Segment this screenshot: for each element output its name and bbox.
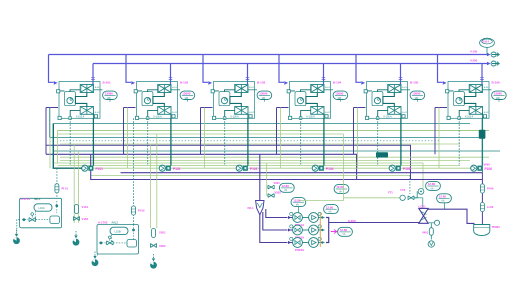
- wire: fuel gas line (green): [60, 156, 489, 158]
- wire: drain column C (green pair): [151, 134, 157, 228]
- instrument: right capsule 1: [480, 184, 484, 193]
- instrument: header flow readout: [480, 38, 495, 47]
- svg-text:B-102: B-102: [180, 81, 189, 85]
- svg-text:PI 02: PI 02: [138, 209, 145, 213]
- compressor unit 2 (coolers E-01/E-02, pump K-102): [134, 82, 195, 120]
- drain: skid2: [97, 254, 99, 256]
- wire: utility line 2 (green): [60, 160, 470, 162]
- wire: pump discharge collector (purple): [326, 218, 329, 243]
- package: chemical injection skid 1: [20, 198, 62, 228]
- svg-text:P101: P101: [96, 167, 104, 171]
- wire: condensate transfer line (purple): [91, 154, 483, 179]
- vessel: flash funnel FD-1: [259, 154, 261, 200]
- wire: left green stub: [57, 131, 59, 164]
- node: gas export A: [487, 53, 491, 56]
- instrument: skid2 feed capsule: [132, 206, 136, 215]
- svg-text:V301: V301: [274, 181, 281, 185]
- wire: unit 5 outlet riser to suction header: [400, 64, 402, 85]
- svg-text:/ML1: /ML1: [34, 197, 41, 201]
- svg-text:LCV1: LCV1: [419, 205, 427, 209]
- wire: header drop to unit 1 inlet: [49, 55, 54, 83]
- wire: unit 2 cooler outlet (thick teal): [170, 118, 172, 165]
- pump pair row 1 (booster P-301 A/B): [288, 212, 325, 222]
- svg-text:V101: V101: [82, 205, 89, 209]
- compressor unit 3 (coolers E-01/E-02, pump K-103): [211, 82, 272, 120]
- svg-text:P103: P103: [250, 167, 258, 171]
- wire: unit 2 outlet riser to suction header: [170, 64, 172, 85]
- wire: green meter run: [344, 197, 400, 199]
- wire: unit 6 cooler outlet (thick teal): [481, 118, 483, 165]
- svg-text:PI 01: PI 01: [62, 187, 69, 191]
- wire: LCV drain stem: [430, 223, 432, 239]
- svg-text:P303A: P303A: [295, 248, 305, 252]
- wire: unit 5 green utility drop: [357, 108, 359, 169]
- wire: stub to PSVs (green): [267, 163, 268, 196]
- wire: suction header: [93, 63, 490, 65]
- svg-text:TK600: TK600: [492, 225, 501, 229]
- wire: unit 6 condensate drop (purple): [435, 108, 447, 155]
- wire: unit 3 outlet riser to suction header: [247, 64, 249, 85]
- compressor unit 1 (coolers E-01/E-02, pump K-101): [57, 82, 118, 120]
- svg-text:V202: V202: [159, 244, 166, 248]
- svg-text:P104: P104: [326, 167, 334, 171]
- package: chemical injection skid 2: [97, 225, 139, 255]
- wire: seal oil run line (green): [53, 167, 480, 169]
- svg-text:A-1701: A-1701: [21, 197, 31, 201]
- wire: unit 2 condensate drop (purple): [124, 108, 136, 155]
- svg-text:P105: P105: [403, 167, 411, 171]
- wire: unit 1 pump suction (dashed teal): [69, 118, 71, 164]
- instrument: flow ellipse FE-1: [279, 183, 294, 192]
- svg-text:B-106: B-106: [492, 81, 501, 85]
- wire: left teal stub: [49, 108, 51, 138]
- pump: unit 4 seal-oil run pump: [312, 165, 324, 171]
- svg-text:B-101: B-101: [103, 81, 112, 85]
- wire: utility line 3 (green): [58, 165, 461, 167]
- svg-text:V102: V102: [82, 217, 89, 221]
- wire: unit 4 condensate drop (purple): [277, 108, 289, 155]
- wire: unit 3 cooler outlet (thick teal): [247, 118, 249, 165]
- pump: unit 1 seal-oil run pump: [82, 165, 94, 171]
- instrument: drain capsule under LCV: [429, 228, 433, 236]
- wire: dashed stub above meters: [409, 175, 411, 194]
- drain: skid1: [17, 220, 20, 232]
- svg-text:B-104: B-104: [333, 81, 342, 85]
- pump: unit 6 seal-oil run pump: [471, 165, 483, 171]
- wire: funnel outlet to pump rows (purple): [260, 215, 288, 243]
- instrument: flow ellipse FE-2 (top right): [334, 184, 349, 193]
- pump: unit 5 seal-oil run pump: [389, 165, 401, 171]
- svg-text:4-200: 4-200: [470, 59, 478, 63]
- svg-text:PI-60: PI-60: [487, 187, 494, 191]
- pump pair row 2 (booster P-302 A/B): [288, 225, 325, 235]
- wire: utility line (green): [60, 143, 460, 145]
- valve: meter block bowtie: [408, 196, 414, 200]
- valve: level control valve LCV-1 (vertical): [419, 208, 428, 223]
- instrument: totalizer ellipse B: [437, 194, 452, 203]
- drain: column A to sewer: [73, 231, 80, 246]
- valve: PSV-2: [268, 194, 274, 198]
- wire: unit 3 pump suction (dashed teal): [224, 118, 226, 164]
- instrument: flow meter circle: [400, 195, 405, 200]
- compressor unit 4 (coolers E-01/E-02, pump K-104): [287, 82, 348, 120]
- wire: unit 3 green utility drop: [204, 108, 206, 169]
- wire: skid2 feed (dashed teal): [133, 118, 135, 224]
- wire: unit 2 green utility drop: [127, 108, 129, 169]
- wire: green loop to right section: [300, 134, 344, 201]
- wire: condensate header lower (purple): [121, 172, 483, 174]
- svg-text:L10A: L10A: [39, 206, 45, 210]
- wire: discharge header: [49, 54, 490, 56]
- svg-text:P102: P102: [173, 167, 181, 171]
- wire: unit 2 pump suction (dashed teal): [147, 118, 149, 164]
- drain: column C to sewer: [150, 254, 157, 269]
- wire: unit 5 cooler outlet (thick teal): [400, 118, 402, 165]
- svg-text:L10B: L10B: [115, 229, 121, 233]
- wire: condensate header mid (purple): [46, 154, 357, 179]
- vessel: condensate tank TK-600: [474, 225, 490, 236]
- wire: unit 4 pump suction (dashed teal): [300, 118, 302, 164]
- wire: unit 1 green utility drop: [49, 108, 51, 169]
- svg-text:FD-1: FD-1: [248, 206, 255, 210]
- compressor unit 5 (coolers E-01/E-02, pump K-105): [364, 82, 425, 120]
- svg-text:V401: V401: [422, 230, 429, 234]
- wire: header drop to unit 4 inlet: [279, 55, 284, 83]
- pump pair row 3 (booster P-303 A/B): [288, 237, 325, 247]
- svg-text:6-300: 6-300: [348, 219, 356, 223]
- wire: meter to pilot circle: [414, 191, 417, 197]
- svg-text:4-100: 4-100: [470, 50, 478, 54]
- svg-text:8.914: 8.914: [482, 40, 489, 44]
- wire: unit 6 outlet riser to suction header: [481, 64, 483, 85]
- compressor unit 6 (coolers E-01/E-02, pump K-106): [446, 82, 507, 120]
- instrument: ellipse PI-9 right of row1: [324, 205, 339, 214]
- wire: unit 1 outlet riser to suction header: [92, 64, 94, 85]
- node: gas export B: [487, 62, 491, 65]
- instrument: right capsule 2: [480, 202, 484, 211]
- svg-text:A-1702: A-1702: [98, 221, 108, 225]
- heater: inline element on utility line: [376, 152, 388, 157]
- wire: pump discharge manifold (orange): [319, 213, 321, 248]
- svg-text:B-103: B-103: [257, 81, 266, 85]
- svg-text:P106: P106: [485, 167, 493, 171]
- wire: condensate header upper (purple): [46, 145, 411, 179]
- wire: unit 1 condensate drop (purple): [46, 108, 58, 155]
- wire: instrument line (dashed teal): [60, 140, 440, 142]
- wire: header drop to unit 3 inlet: [203, 55, 208, 83]
- wire: cooling water return (teal): [50, 137, 479, 139]
- wire: tank feed column (purple): [481, 173, 483, 225]
- wire: header drop to unit 2 inlet: [126, 55, 131, 83]
- wire: LCV outlet to tank (purple): [428, 209, 475, 223]
- wire: unit 4 green utility drop: [280, 108, 282, 169]
- wire: unit 6 green utility drop: [438, 108, 440, 169]
- wire: cooling water supply (teal): [53, 123, 470, 125]
- wire: utility line 4 (green): [91, 175, 410, 177]
- svg-text:B-105: B-105: [410, 81, 419, 85]
- instrument: small circle right of LCV: [434, 220, 439, 225]
- valve: column C capsule: [152, 229, 156, 238]
- wire: discharge to LCV (purple): [329, 222, 420, 224]
- wire: glycol return (green): [58, 130, 490, 132]
- wire: glycol supply (green): [58, 133, 344, 135]
- wire: seal oil feeder (thick teal): [53, 124, 82, 169]
- svg-text:LI-60: LI-60: [487, 205, 494, 209]
- wire: header drop to unit 6 inlet: [438, 55, 443, 83]
- valve: drain column A bowtie: [73, 217, 79, 221]
- instrument: ellipse with pink arrow: [331, 230, 337, 234]
- wire: unit6 liquid drop (teal): [481, 118, 483, 172]
- wire: unit 3 condensate drop (purple): [201, 108, 213, 155]
- wire: unit 4 outlet riser to suction header: [323, 64, 325, 85]
- valve: drain column A capsule: [75, 205, 79, 214]
- valve: column C bowtie: [150, 244, 156, 248]
- svg-text:FT1: FT1: [388, 191, 393, 195]
- node: open drain funnel: [428, 241, 434, 247]
- svg-text:V201: V201: [159, 231, 166, 235]
- svg-text:/ML2: /ML2: [112, 221, 119, 225]
- heater: inline element (filled): [479, 130, 486, 139]
- pump: unit 3 seal-oil run pump: [236, 165, 248, 171]
- wire: unit 5 pump suction (dashed teal): [377, 118, 379, 164]
- wire: skid1 feed (dashed teal): [56, 168, 58, 198]
- wire: unit 6 pump suction (dashed teal): [458, 118, 460, 164]
- wire: unit 4 cooler outlet (thick teal): [323, 118, 325, 165]
- instrument: totalizer ellipse A: [426, 181, 441, 190]
- wire: utility line (teal): [53, 150, 500, 152]
- valve: PSV-1: [268, 185, 274, 189]
- wire: drains collector (green): [53, 163, 424, 191]
- wire: unit 5 condensate drop (purple): [354, 108, 366, 155]
- svg-text:FT2: FT2: [401, 188, 406, 192]
- instrument: level ellipse LI-1: [291, 198, 306, 207]
- instrument: skid1 feed capsule: [55, 184, 59, 193]
- pump: unit 2 seal-oil run pump: [159, 165, 171, 171]
- wire: drain column A (green pair): [74, 144, 78, 223]
- svg-text:V600: V600: [484, 163, 491, 167]
- instrument: pilot circle: [418, 189, 424, 195]
- wire: header drop to unit 5 inlet: [356, 55, 361, 83]
- wire: unit 1 cooler outlet (thick teal): [92, 118, 94, 165]
